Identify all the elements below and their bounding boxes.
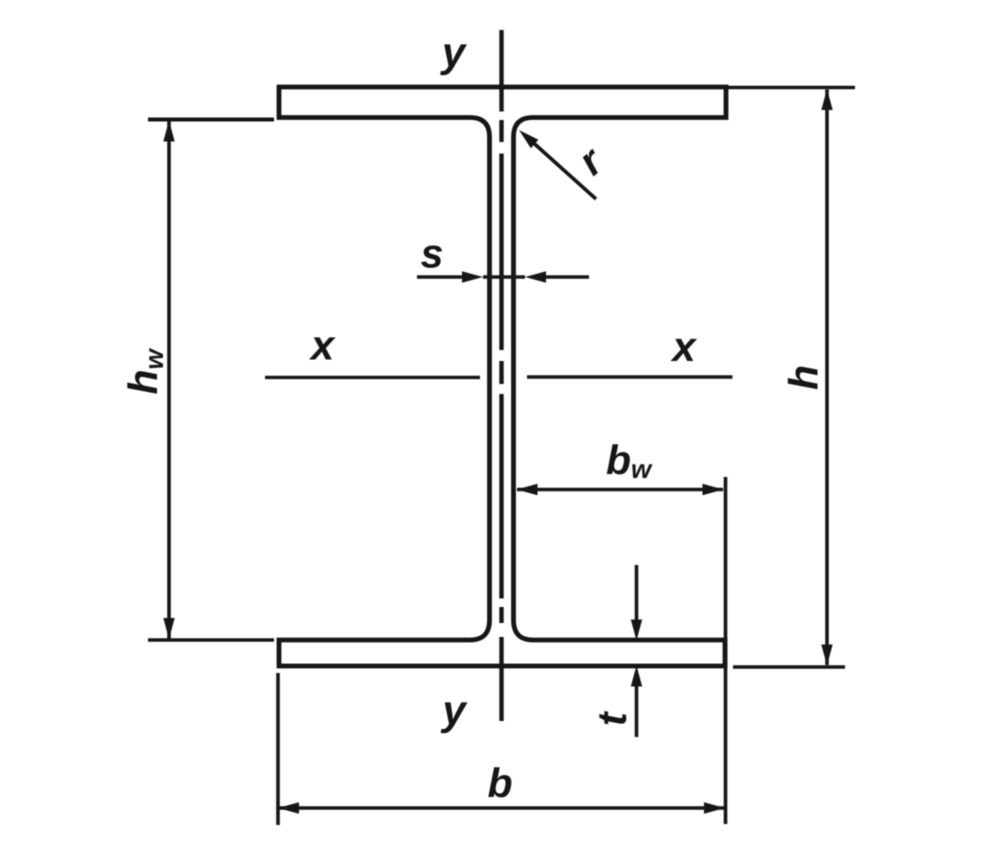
centerline x-x (horizontal axis, left segment) bbox=[265, 376, 480, 379]
dimension s: right arrowhead bbox=[525, 271, 546, 282]
dimension h: top arrowhead bbox=[821, 89, 832, 110]
dimension s: left arrowhead bbox=[462, 271, 483, 282]
svg-text:y: y bbox=[440, 687, 468, 734]
dimension t: upper arrowhead (down) bbox=[631, 620, 642, 641]
dimension b: right arrowhead bbox=[704, 802, 725, 813]
dimension s: line across web bbox=[483, 275, 525, 279]
svg-text:x: x bbox=[670, 323, 697, 370]
svg-text:hw: hw bbox=[120, 347, 169, 394]
dimension h: bottom extension line bbox=[733, 665, 845, 669]
dimension s: right line bbox=[542, 275, 589, 279]
dimension h_w: top extension line bbox=[148, 118, 274, 122]
dimension b_w: right arrowhead bbox=[703, 484, 724, 495]
dimension h: bottom arrowhead bbox=[821, 645, 832, 666]
dimension t: upper line bbox=[635, 565, 639, 623]
dimension t: lower arrowhead (up) bbox=[631, 666, 642, 687]
dimension b: left arrowhead bbox=[278, 802, 299, 813]
svg-text:h: h bbox=[781, 365, 827, 390]
dimension h_w: bottom arrowhead bbox=[163, 618, 174, 639]
svg-text:y: y bbox=[440, 29, 468, 76]
centerline y-y (vertical axis) bbox=[499, 30, 503, 721]
dimension b: left extension line bbox=[276, 673, 280, 825]
dimension h_w: dimension line bbox=[167, 121, 171, 639]
dimension b_w: left arrowhead bbox=[517, 484, 538, 495]
centerline x-x (horizontal axis, right segment) bbox=[527, 375, 733, 378]
dimension h: top extension line bbox=[728, 86, 855, 89]
svg-text:r: r bbox=[569, 137, 612, 184]
dimension h_w: top arrowhead bbox=[163, 121, 174, 142]
dimension h_w: bottom extension line bbox=[148, 638, 274, 642]
I-beam cross-section outline bbox=[279, 87, 726, 666]
svg-text:s: s bbox=[421, 231, 444, 277]
dimension b_w: dimension line bbox=[517, 488, 723, 492]
dimension b: dimension line bbox=[279, 806, 724, 810]
svg-text:x: x bbox=[309, 322, 336, 369]
leader line r bbox=[528, 138, 596, 199]
dimension h: dimension line bbox=[825, 90, 829, 666]
svg-text:t: t bbox=[589, 710, 635, 726]
dimension t: lower line bbox=[635, 684, 639, 737]
svg-text:bw: bw bbox=[606, 437, 653, 484]
svg-text:b: b bbox=[487, 760, 512, 806]
dimension b_w / b: right extension line bbox=[724, 477, 728, 824]
leader r arrowhead bbox=[515, 126, 538, 149]
dimension s: left line bbox=[417, 275, 465, 279]
